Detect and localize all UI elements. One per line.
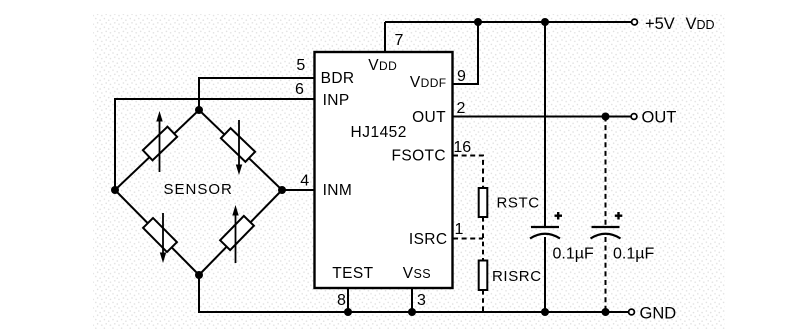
node bottom of bridge — [195, 271, 203, 279]
node right of bridge — [278, 186, 286, 194]
arrow bottom-right (up) — [235, 213, 237, 263]
wire: FSOTC dashed net (pin 16) — [453, 156, 483, 189]
wire: ISRC dashed net (pin 1) — [453, 238, 483, 240]
node junction: C1 on +5V rail — [541, 18, 549, 26]
svg-text:0.1µF: 0.1µF — [613, 246, 654, 263]
background halftone area — [93, 14, 725, 329]
resistor RISRC — [479, 261, 488, 291]
wire: INP net (pin 6) — [115, 99, 314, 190]
svg-text:+5V: +5V — [645, 15, 675, 33]
svg-text:TEST: TEST — [332, 265, 373, 282]
wire: VDDF riser (pin 9) — [453, 22, 478, 84]
svg-text:6: 6 — [295, 81, 304, 98]
wire: INM net (pin 4) — [282, 189, 314, 191]
svg-text:INP: INP — [323, 92, 350, 109]
node junction: VSS on ground rail — [408, 308, 416, 316]
svg-text:3: 3 — [417, 292, 426, 309]
wire: TEST stub (pin 8) — [347, 288, 349, 312]
node junction: C1 on ground rail — [541, 308, 549, 316]
variable resistor body top-left — [143, 127, 177, 161]
node top of bridge — [195, 106, 203, 114]
capacitor C2 top plate — [592, 226, 620, 228]
wire: OUT net (pin 2) — [453, 116, 631, 118]
svg-text:1: 1 — [455, 221, 464, 238]
svg-text:FSOTC: FSOTC — [391, 148, 446, 165]
wire: C1 vertical from +5V rail — [544, 22, 546, 226]
svg-text:ISRC: ISRC — [409, 231, 448, 248]
node junction: TEST on ground rail — [344, 308, 352, 316]
svg-text:2: 2 — [457, 100, 466, 117]
node junction: C2 on ground rail — [602, 308, 610, 316]
wire: C2 dashed from OUT — [605, 117, 607, 227]
svg-text:4: 4 — [300, 173, 309, 190]
terminal GND — [629, 309, 635, 315]
svg-text:RSTC: RSTC — [497, 194, 540, 211]
arrow bottom-left (down) — [162, 213, 164, 255]
sensor bridge arm top-right — [199, 110, 282, 190]
svg-text:16: 16 — [453, 139, 471, 156]
svg-text:8: 8 — [337, 292, 346, 309]
variable resistor body top-right — [221, 128, 255, 162]
variable resistor body bottom-right — [220, 216, 254, 250]
polarity + for C1 — [555, 212, 563, 220]
variable resistor body bottom-left — [143, 218, 177, 252]
wire: C2 to ground rail dashed — [605, 237, 607, 312]
wire: dashed link RSTC to RISRC — [482, 217, 484, 260]
node junction: C2 on OUT net — [602, 113, 610, 121]
polarity + for C2 — [615, 212, 623, 220]
wire: bridge bottom to ground rail — [198, 275, 200, 312]
wire: +5V top rail — [385, 21, 631, 23]
svg-text:7: 7 — [395, 32, 404, 49]
arrow top-right (down) — [238, 120, 240, 167]
svg-text:BDR: BDR — [321, 70, 355, 87]
terminal OUT — [631, 114, 637, 120]
svg-text:OUT: OUT — [412, 109, 446, 126]
wire: pin 7 VDD stub — [384, 22, 386, 52]
svg-text:VDD: VDD — [368, 57, 397, 74]
svg-text:VDD: VDD — [686, 15, 715, 33]
node left of bridge — [111, 186, 119, 194]
svg-text:INM: INM — [323, 182, 353, 199]
resistor RSTC — [479, 188, 488, 217]
capacitor C2 curved plate — [591, 234, 621, 239]
svg-text:OUT: OUT — [642, 109, 677, 127]
wire: RISRC to ground rail dashed — [482, 290, 484, 312]
svg-text:5: 5 — [296, 57, 305, 74]
svg-text:0.1µF: 0.1µF — [553, 246, 594, 263]
svg-text:VDDF: VDDF — [410, 74, 447, 91]
wire: VSS stub (pin 3) — [411, 288, 413, 312]
svg-text:RISRC: RISRC — [492, 268, 542, 285]
capacitor C1 top plate — [531, 226, 559, 228]
sensor bridge arm bottom-right — [199, 190, 282, 275]
sensor bridge arm top-left — [115, 110, 199, 190]
svg-text:9: 9 — [457, 68, 466, 85]
wire: BDR net (pin 5) — [199, 78, 314, 110]
svg-text:HJ1452: HJ1452 — [351, 124, 407, 141]
wire: ground rail — [198, 311, 629, 313]
arrow top-left (up) — [159, 119, 161, 172]
node junction: VDDF riser on +5V rail — [474, 18, 482, 26]
svg-text:VSS: VSS — [403, 265, 431, 282]
svg-text:SENSOR: SENSOR — [164, 181, 233, 198]
svg-text:GND: GND — [640, 305, 677, 323]
wire: C1 to ground rail — [544, 237, 546, 312]
capacitor C1 curved plate — [530, 234, 560, 239]
op-amp U1 HJ1452 IC body — [315, 52, 453, 288]
sensor bridge arm bottom-left — [115, 190, 199, 275]
terminal +5V — [632, 19, 638, 25]
